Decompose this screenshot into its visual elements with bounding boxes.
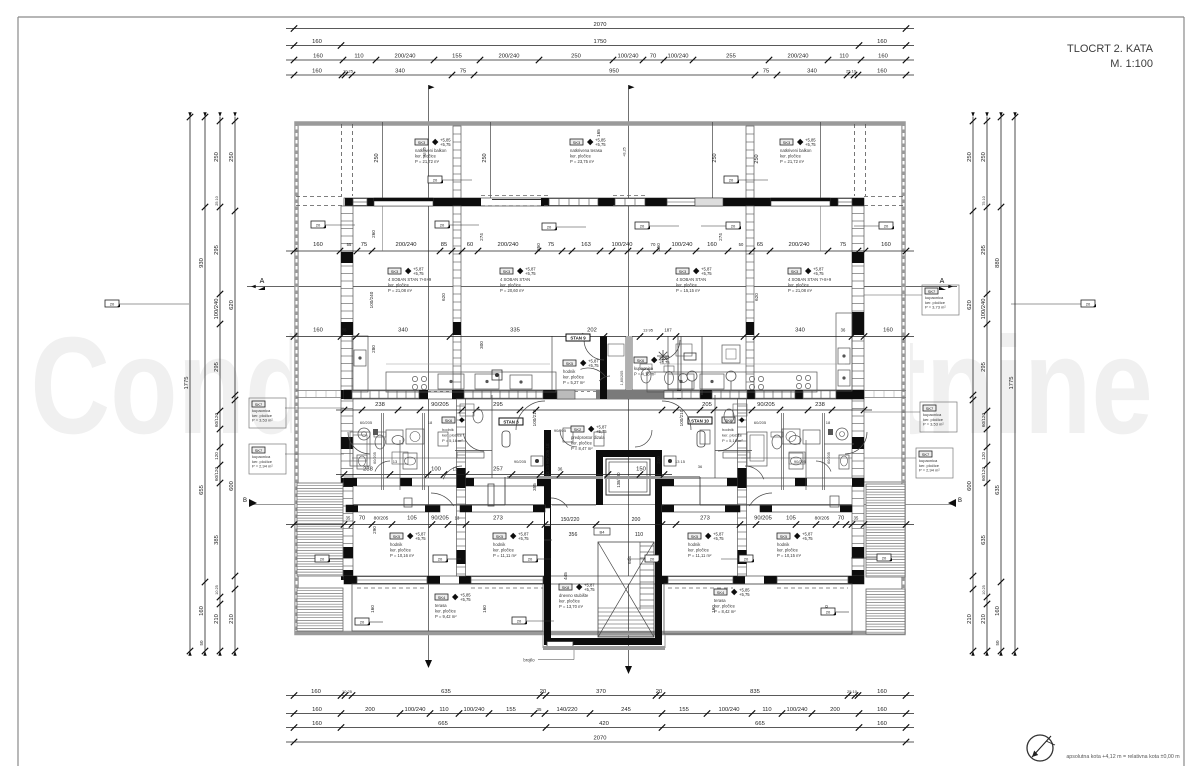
svg-text:ker. pločice: ker. pločice [676, 283, 698, 288]
svg-text:P = 3,53 m²: P = 3,53 m² [252, 418, 273, 423]
svg-text:P = 11,11 m²: P = 11,11 m² [493, 553, 517, 558]
svg-text:ker. pločice: ker. pločice [688, 548, 710, 553]
svg-text:85: 85 [441, 242, 447, 248]
svg-text:75: 75 [548, 242, 554, 248]
svg-text:160: 160 [482, 605, 487, 613]
svg-text:665: 665 [755, 721, 765, 727]
svg-text:110: 110 [439, 707, 448, 713]
svg-text:274: 274 [479, 233, 484, 241]
svg-text:120: 120 [214, 452, 219, 460]
svg-text:hodnik: hodnik [722, 427, 734, 432]
svg-text:+5,75: +5,75 [701, 271, 712, 276]
svg-text:ker. pločice: ker. pločice [714, 604, 736, 609]
svg-text:90/205: 90/205 [554, 428, 567, 433]
svg-text:445: 445 [563, 572, 568, 580]
svg-text:ker. pločice: ker. pločice [571, 441, 593, 446]
svg-text:20: 20 [640, 224, 645, 229]
svg-text:+5,75: +5,75 [588, 363, 599, 368]
svg-text:160: 160 [707, 242, 717, 248]
svg-text:+5,75: +5,75 [802, 536, 813, 541]
svg-text:335: 335 [510, 328, 520, 334]
svg-text:20: 20 [110, 302, 115, 307]
svg-text:200: 200 [365, 707, 375, 713]
svg-text:+5,75: +5,75 [813, 271, 824, 276]
svg-text:205: 205 [702, 402, 712, 408]
svg-text:20: 20 [540, 689, 546, 695]
svg-text:M. 1:100: M. 1:100 [1110, 58, 1153, 70]
svg-text:13: 13 [453, 467, 458, 472]
svg-text:P = 15,15 m²: P = 15,15 m² [676, 288, 701, 293]
svg-text:20: 20 [656, 689, 662, 695]
svg-text:13 15: 13 15 [675, 459, 686, 464]
svg-text:20: 20 [440, 223, 445, 228]
svg-text:160: 160 [877, 69, 887, 75]
svg-text:B: B [958, 498, 962, 504]
svg-text:355: 355 [532, 483, 537, 491]
svg-text:+8,25: +8,25 [623, 147, 627, 157]
svg-text:20: 20 [729, 178, 734, 183]
svg-text:295: 295 [214, 362, 220, 372]
svg-text:10 25: 10 25 [982, 585, 986, 595]
svg-text:75: 75 [763, 69, 769, 75]
svg-text:+5,75: +5,75 [413, 271, 424, 276]
svg-text:75 10: 75 10 [982, 196, 986, 206]
svg-text:P = 4,18 m²: P = 4,18 m² [634, 372, 656, 377]
svg-text:250: 250 [229, 152, 235, 162]
svg-text:20: 20 [320, 557, 325, 562]
svg-text:160: 160 [312, 721, 322, 727]
svg-text:340: 340 [807, 69, 817, 75]
svg-text:60/120: 60/120 [981, 467, 986, 481]
svg-text:110: 110 [839, 54, 848, 60]
svg-text:350: 350 [536, 243, 541, 251]
svg-text:10 25: 10 25 [342, 689, 353, 694]
svg-text:P = 3,73 m²: P = 3,73 m² [925, 305, 946, 310]
svg-text:100/240: 100/240 [612, 242, 633, 248]
svg-text:+5,75: +5,75 [440, 142, 451, 147]
svg-text:13: 13 [393, 459, 398, 464]
svg-text:P = 5,16 m²: P = 5,16 m² [442, 438, 463, 443]
svg-text:ker. pločice: ker. pločice [442, 433, 463, 438]
svg-text:ker. pločice: ker. pločice [390, 548, 412, 553]
svg-text:604: 604 [627, 556, 632, 564]
svg-text:240: 240 [656, 456, 661, 464]
svg-text:160: 160 [311, 689, 321, 695]
svg-text:60/205: 60/205 [827, 452, 831, 464]
svg-text:20: 20 [360, 620, 365, 625]
svg-text:90/205: 90/205 [431, 402, 449, 408]
svg-text:B: B [243, 498, 247, 504]
svg-text:P = 23,75 m²: P = 23,75 m² [570, 159, 595, 164]
svg-text:predprostor dizala: predprostor dizala [571, 435, 605, 440]
svg-text:100/240: 100/240 [668, 54, 689, 60]
svg-text:P = 21,72 m²: P = 21,72 m² [780, 159, 805, 164]
svg-text:665: 665 [438, 721, 448, 727]
svg-text:TLOCRT 2. KATA: TLOCRT 2. KATA [1067, 43, 1154, 55]
svg-text:A: A [260, 278, 265, 285]
svg-text:SK3: SK3 [503, 269, 511, 274]
svg-text:20: 20 [1086, 302, 1091, 307]
svg-text:25 10: 25 10 [847, 689, 858, 694]
svg-text:160: 160 [878, 54, 888, 60]
svg-text:250: 250 [712, 153, 718, 162]
svg-text:160: 160 [877, 721, 887, 727]
svg-text:P = 2,94 m²: P = 2,94 m² [252, 464, 273, 469]
svg-text:ker. pločice: ker. pločice [493, 548, 515, 553]
svg-text:P = 8,47 m²: P = 8,47 m² [571, 446, 593, 451]
svg-text:SK6: SK6 [445, 418, 453, 423]
svg-text:STAN 10: STAN 10 [691, 418, 709, 423]
svg-text:STAN 9: STAN 9 [570, 335, 586, 340]
svg-text:+5,75: +5,75 [415, 536, 426, 541]
svg-text:210: 210 [214, 614, 220, 624]
svg-text:+5,75: +5,75 [805, 142, 816, 147]
svg-text:hodnik: hodnik [442, 427, 454, 432]
svg-text:930: 930 [199, 258, 205, 268]
svg-text:20: 20 [731, 224, 736, 229]
svg-text:90/205: 90/205 [794, 459, 807, 464]
svg-text:ker. pločice: ker. pločice [788, 283, 810, 288]
svg-text:340: 340 [395, 69, 405, 75]
svg-text:950: 950 [609, 69, 619, 75]
svg-text:80/205: 80/205 [374, 516, 389, 522]
svg-text:250: 250 [981, 152, 987, 162]
svg-text:B4: B4 [600, 530, 606, 535]
svg-text:160: 160 [877, 39, 887, 45]
svg-text:273: 273 [493, 516, 503, 522]
svg-text:1750: 1750 [594, 39, 607, 45]
svg-text:brojilo: brojilo [523, 658, 535, 663]
svg-text:200/240: 200/240 [498, 242, 519, 248]
svg-text:2070: 2070 [594, 22, 607, 28]
svg-text:SK3: SK3 [573, 140, 581, 145]
svg-text:SK7: SK7 [255, 402, 263, 407]
svg-text:160: 160 [312, 39, 322, 45]
svg-text:100/240: 100/240 [618, 54, 639, 60]
svg-text:75: 75 [840, 242, 846, 248]
svg-text:SK6: SK6 [637, 358, 645, 363]
svg-text:ker. pločice: ker. pločice [563, 375, 585, 380]
svg-text:200/240: 200/240 [788, 54, 809, 60]
svg-text:60/120: 60/120 [214, 467, 219, 481]
svg-text:+5,75: +5,75 [584, 587, 595, 592]
svg-text:SK7: SK7 [922, 452, 930, 457]
svg-text:210: 210 [967, 614, 973, 624]
svg-text:P = 8,42 m²: P = 8,42 m² [714, 609, 736, 614]
svg-text:60/120: 60/120 [214, 413, 219, 427]
svg-text:295: 295 [493, 402, 503, 408]
svg-text:ker. pločice: ker. pločice [559, 599, 581, 604]
svg-text:SK7: SK7 [926, 406, 934, 411]
svg-text:100: 100 [431, 467, 441, 473]
svg-text:ker. pločice: ker. pločice [570, 154, 592, 159]
svg-text:SK3: SK3 [791, 269, 799, 274]
svg-text:245: 245 [621, 707, 631, 713]
svg-text:SK3: SK3 [783, 140, 791, 145]
svg-text:273: 273 [700, 516, 710, 522]
svg-text:238: 238 [815, 402, 825, 408]
svg-text:880: 880 [995, 258, 1001, 268]
svg-text:150/220: 150/220 [561, 517, 580, 523]
svg-text:250: 250 [482, 153, 488, 162]
svg-text:105: 105 [786, 516, 796, 522]
svg-text:60/205: 60/205 [754, 420, 767, 425]
svg-text:20: 20 [882, 556, 887, 561]
svg-text:20: 20 [826, 610, 831, 615]
svg-text:155: 155 [506, 707, 516, 713]
svg-text:hodnik: hodnik [390, 542, 403, 547]
svg-text:90/205: 90/205 [757, 402, 775, 408]
svg-text:ker. pločice: ker. pločice [435, 609, 457, 614]
svg-text:SK8: SK8 [562, 585, 570, 590]
svg-text:620: 620 [967, 300, 973, 310]
svg-text:36: 36 [558, 467, 563, 472]
svg-text:hodnik: hodnik [688, 542, 701, 547]
svg-text:20: 20 [517, 619, 522, 624]
svg-text:75: 75 [460, 69, 466, 75]
svg-text:SK4: SK4 [438, 595, 446, 600]
svg-text:635: 635 [995, 485, 1001, 495]
svg-text:290: 290 [372, 526, 377, 534]
svg-text:kupaonica: kupaonica [634, 366, 654, 371]
svg-text:370: 370 [596, 689, 606, 695]
svg-text:P = 9,42 m²: P = 9,42 m² [435, 614, 457, 619]
svg-text:295: 295 [214, 245, 220, 255]
svg-text:+5,75: +5,75 [525, 271, 536, 276]
svg-text:250: 250 [754, 154, 760, 163]
svg-text:10 25: 10 25 [215, 585, 219, 595]
svg-text:105: 105 [407, 516, 417, 522]
svg-text:356: 356 [569, 532, 578, 538]
svg-text:155: 155 [452, 54, 462, 60]
svg-text:25 10: 25 10 [215, 196, 219, 206]
svg-text:13 95: 13 95 [643, 328, 654, 333]
svg-text:238: 238 [375, 402, 385, 408]
svg-text:250: 250 [967, 152, 973, 162]
svg-text:ker. pločice: ker. pločice [722, 433, 743, 438]
svg-text:18: 18 [826, 420, 831, 425]
svg-text:+5,75: +5,75 [713, 536, 724, 541]
svg-text:P = 10,15 m²: P = 10,15 m² [777, 553, 802, 558]
svg-text:110: 110 [354, 54, 363, 60]
svg-text:P = 5,16 m²: P = 5,16 m² [722, 438, 743, 443]
svg-text:110: 110 [762, 707, 771, 713]
svg-text:hodnik: hodnik [493, 542, 506, 547]
svg-text:163: 163 [581, 242, 591, 248]
svg-text:100/240: 100/240 [719, 707, 740, 713]
svg-text:110: 110 [635, 532, 643, 538]
svg-text:P = 21,08 m²: P = 21,08 m² [788, 288, 813, 293]
svg-text:90/205: 90/205 [431, 516, 449, 522]
svg-text:P = 2,94 m²: P = 2,94 m² [919, 468, 940, 473]
svg-text:187: 187 [664, 328, 672, 333]
svg-text:hodnik: hodnik [777, 542, 790, 547]
svg-text:100/210: 100/210 [532, 409, 537, 426]
svg-text:10 25: 10 25 [343, 69, 354, 74]
svg-text:65: 65 [757, 242, 763, 248]
svg-text:P = 13,70 m²: P = 13,70 m² [559, 604, 584, 609]
svg-text:200/240: 200/240 [499, 54, 520, 60]
svg-text:natkriveni balkon: natkriveni balkon [415, 148, 447, 153]
svg-text:ker. pločice: ker. pločice [388, 283, 410, 288]
svg-text:635: 635 [981, 535, 987, 545]
svg-text:+5,75: +5,75 [518, 536, 529, 541]
svg-text:natkriveni balkon: natkriveni balkon [780, 148, 812, 153]
svg-text:620: 620 [441, 293, 446, 301]
svg-text:250: 250 [374, 153, 380, 162]
svg-text:4 SOBAN STAN: 4 SOBAN STAN [500, 277, 530, 282]
svg-text:P = 21,08 m²: P = 21,08 m² [388, 288, 413, 293]
svg-text:200/240: 200/240 [396, 242, 417, 248]
svg-text:SK3: SK3 [679, 269, 687, 274]
svg-text:100/240: 100/240 [981, 299, 987, 320]
svg-text:25 10: 25 10 [846, 69, 857, 74]
svg-text:1775: 1775 [1009, 377, 1015, 390]
svg-text:60/205: 60/205 [373, 452, 377, 464]
svg-text:60/120: 60/120 [981, 413, 986, 427]
svg-text:36: 36 [342, 328, 347, 333]
svg-text:1,60/205: 1,60/205 [620, 371, 624, 386]
svg-text:ker. pločice: ker. pločice [777, 548, 799, 553]
svg-text:SK7: SK7 [255, 448, 263, 453]
svg-text:SK7: SK7 [928, 289, 936, 294]
svg-text:4 SOBAN STAN: 4 SOBAN STAN [676, 277, 706, 282]
svg-text:140/220: 140/220 [557, 707, 578, 713]
svg-text:dnevno stubište: dnevno stubište [559, 593, 589, 598]
svg-text:620: 620 [754, 293, 759, 301]
svg-text:600: 600 [229, 481, 235, 491]
svg-text:70: 70 [359, 516, 365, 522]
svg-text:SK3: SK3 [391, 269, 399, 274]
svg-text:hodnik: hodnik [563, 369, 576, 374]
svg-text:150: 150 [636, 467, 646, 473]
svg-text:20: 20 [528, 557, 533, 562]
svg-text:257: 257 [493, 467, 503, 473]
svg-text:P = 3,53 m²: P = 3,53 m² [923, 422, 944, 427]
svg-text:200: 200 [632, 517, 641, 523]
svg-text:600: 600 [967, 481, 973, 491]
svg-text:655: 655 [199, 485, 205, 495]
svg-text:4 SOBAN STAN 7+8+9: 4 SOBAN STAN 7+8+9 [788, 277, 832, 282]
svg-text:20: 20 [433, 178, 438, 183]
svg-text:160: 160 [312, 69, 322, 75]
svg-text:200/240: 200/240 [789, 242, 810, 248]
svg-text:100/210: 100/210 [679, 409, 684, 426]
svg-text:P = 5,27 m²: P = 5,27 m² [563, 380, 585, 385]
svg-text:160: 160 [883, 328, 893, 334]
svg-text:1775: 1775 [184, 377, 190, 390]
svg-text:4 SOBAN STAN 7+8+9: 4 SOBAN STAN 7+8+9 [388, 277, 432, 282]
svg-text:100/240: 100/240 [672, 242, 693, 248]
svg-text:90/205: 90/205 [514, 459, 527, 464]
svg-text:80/205: 80/205 [815, 516, 830, 522]
svg-text:terasa: terasa [435, 603, 447, 608]
svg-text:160: 160 [995, 606, 1001, 616]
svg-text:35: 35 [346, 516, 351, 521]
svg-text:160: 160 [370, 605, 375, 613]
svg-text:20: 20 [547, 225, 552, 230]
svg-text:A: A [940, 278, 945, 285]
svg-text:295: 295 [981, 245, 987, 255]
svg-text:13 15 60/205 18: 13 15 60/205 18 [545, 443, 550, 477]
svg-text:100/240: 100/240 [405, 707, 426, 713]
svg-text:300: 300 [479, 341, 484, 349]
svg-text:35: 35 [537, 707, 542, 712]
svg-text:340: 340 [398, 328, 408, 334]
svg-text:terasa: terasa [714, 598, 726, 603]
svg-text:SK5: SK5 [496, 534, 504, 539]
svg-text:238: 238 [363, 467, 373, 473]
svg-text:200/240: 200/240 [395, 54, 416, 60]
svg-text:100/240: 100/240 [787, 707, 808, 713]
svg-text:2070: 2070 [594, 736, 607, 742]
svg-text:100/240: 100/240 [369, 291, 374, 308]
svg-text:350: 350 [656, 243, 661, 251]
svg-text:274: 274 [718, 233, 723, 241]
svg-text:13: 13 [455, 516, 460, 521]
svg-text:+5,75: +5,75 [460, 597, 471, 602]
svg-text:160: 160 [312, 707, 322, 713]
svg-text:385: 385 [214, 535, 220, 545]
svg-text:+5,75: +5,75 [595, 142, 606, 147]
svg-text:255: 255 [726, 54, 736, 60]
svg-text:ker. pločice: ker. pločice [500, 283, 522, 288]
svg-text:202: 202 [587, 328, 597, 334]
svg-text:20: 20 [650, 557, 655, 562]
svg-text:20: 20 [744, 557, 749, 562]
svg-text:260: 260 [371, 230, 376, 238]
svg-text:50: 50 [739, 242, 744, 247]
svg-text:50: 50 [199, 640, 204, 646]
svg-text:+5,75: +5,75 [596, 429, 607, 434]
svg-text:P = 11,11 m²: P = 11,11 m² [688, 553, 712, 558]
svg-text:100/240: 100/240 [214, 299, 220, 320]
svg-text:20: 20 [884, 224, 889, 229]
svg-text:apsolutna kota +4,12 m = relat: apsolutna kota +4,12 m = relativna kota … [1066, 754, 1180, 760]
svg-text:36: 36 [698, 464, 703, 469]
svg-text:75: 75 [361, 242, 367, 248]
svg-text:250: 250 [214, 152, 220, 162]
svg-text:60: 60 [467, 242, 473, 248]
svg-text:835: 835 [750, 689, 760, 695]
svg-text:210: 210 [981, 614, 987, 624]
svg-text:200: 200 [830, 707, 840, 713]
svg-text:P = 21,72 m²: P = 21,72 m² [415, 159, 440, 164]
svg-text:SK4: SK4 [717, 590, 725, 595]
svg-text:18: 18 [428, 420, 433, 425]
svg-text:SK5: SK5 [691, 534, 699, 539]
svg-text:SK3: SK3 [418, 140, 426, 145]
svg-text:P = 20,60 m²: P = 20,60 m² [500, 288, 525, 293]
svg-text:P = 10,16 m²: P = 10,16 m² [390, 553, 415, 558]
svg-text:55: 55 [347, 242, 352, 247]
svg-text:120: 120 [981, 452, 986, 460]
svg-text:natkrivena terasa: natkrivena terasa [570, 148, 603, 153]
svg-text:635: 635 [441, 689, 451, 695]
svg-text:160: 160 [313, 242, 323, 248]
svg-text:60/205: 60/205 [360, 420, 373, 425]
svg-text:160: 160 [313, 328, 323, 334]
svg-text:ker. pločice: ker. pločice [415, 154, 437, 159]
svg-text:160: 160 [881, 242, 891, 248]
svg-text:SK5: SK5 [393, 534, 401, 539]
svg-text:100/240: 100/240 [464, 707, 485, 713]
svg-text:SK2: SK2 [574, 427, 582, 432]
svg-text:70: 70 [650, 54, 656, 60]
svg-text:+5,75: +5,75 [739, 592, 750, 597]
svg-text:50: 50 [995, 640, 1000, 646]
svg-text:70: 70 [838, 516, 844, 522]
